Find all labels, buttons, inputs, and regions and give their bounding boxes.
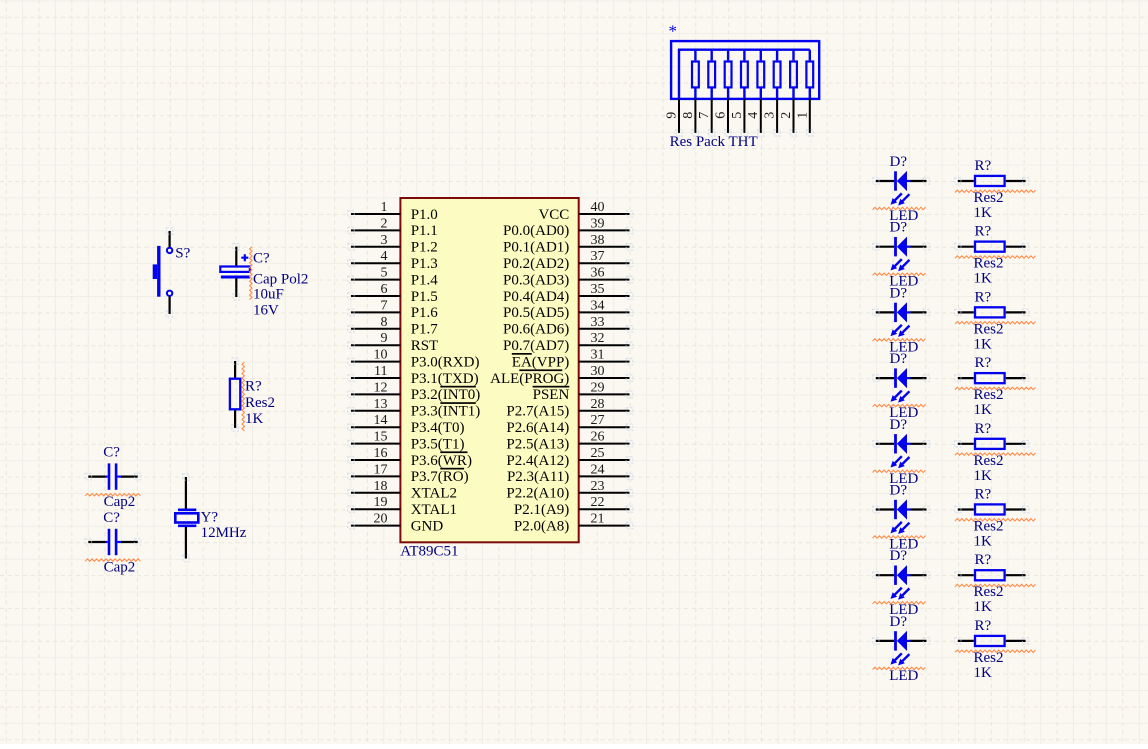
svg-text:39: 39 bbox=[591, 216, 605, 231]
resistor pack pin 4 bbox=[760, 99, 762, 133]
svg-text:7: 7 bbox=[697, 112, 712, 119]
resistor pack RP? outer box bbox=[671, 41, 819, 99]
IC pin 6 wire bbox=[351, 295, 400, 297]
IC pin 5 wire bbox=[351, 279, 400, 281]
LED D? #5 bbox=[876, 434, 927, 469]
svg-text:7: 7 bbox=[381, 298, 388, 313]
IC pin 36 wire bbox=[579, 279, 630, 281]
svg-text:P2.4(A12): P2.4(A12) bbox=[506, 453, 569, 469]
svg-text:P1.1: P1.1 bbox=[411, 223, 438, 239]
svg-text:5: 5 bbox=[730, 112, 745, 119]
svg-text:P3.7(RO): P3.7(RO) bbox=[411, 469, 469, 485]
svg-text:D?: D? bbox=[890, 154, 908, 170]
IC pin 2 wire bbox=[351, 229, 400, 231]
IC pin 18 wire bbox=[351, 492, 400, 494]
resistor pack pin 9 bbox=[678, 99, 680, 133]
svg-text:GND: GND bbox=[411, 518, 444, 534]
svg-text:14: 14 bbox=[374, 413, 388, 428]
svg-text:D?: D? bbox=[890, 417, 908, 433]
svg-text:P1.2: P1.2 bbox=[411, 240, 438, 256]
svg-text:Res2: Res2 bbox=[974, 584, 1004, 600]
resistor pack element 3 bbox=[727, 50, 729, 61]
svg-text:6: 6 bbox=[714, 112, 729, 119]
svg-text:27: 27 bbox=[591, 413, 605, 428]
svg-text:10: 10 bbox=[374, 348, 388, 363]
svg-text:25: 25 bbox=[591, 446, 605, 461]
crystal Y? 12MHz bbox=[185, 477, 187, 509]
overline PSEN bbox=[533, 386, 570, 388]
LED D? #2 bbox=[876, 237, 927, 272]
svg-text:P1.4: P1.4 bbox=[411, 272, 439, 288]
svg-text:Res2: Res2 bbox=[245, 395, 275, 411]
svg-text:12: 12 bbox=[374, 380, 388, 395]
IC pin 19 wire bbox=[351, 508, 400, 510]
svg-text:33: 33 bbox=[591, 315, 605, 330]
resistor R? Res2 1K (vertical) bbox=[234, 361, 236, 378]
resistor R? #2 (Res2 1K) bbox=[958, 246, 974, 248]
IC pin 24 wire bbox=[579, 475, 630, 477]
svg-text:P1.0: P1.0 bbox=[411, 207, 438, 223]
svg-text:P1.6: P1.6 bbox=[411, 305, 439, 321]
svg-text:19: 19 bbox=[374, 495, 388, 510]
svg-text:P2.5(A13): P2.5(A13) bbox=[506, 436, 569, 452]
IC pin 3 wire bbox=[351, 246, 400, 248]
IC pin 28 wire bbox=[579, 410, 630, 412]
svg-text:21: 21 bbox=[591, 512, 605, 527]
svg-text:20: 20 bbox=[374, 512, 388, 527]
svg-text:8: 8 bbox=[381, 315, 388, 330]
svg-text:P2.7(A15): P2.7(A15) bbox=[506, 404, 569, 420]
svg-text:26: 26 bbox=[591, 430, 605, 445]
svg-text:1K: 1K bbox=[974, 468, 993, 484]
svg-text:5: 5 bbox=[381, 266, 388, 281]
svg-text:P1.7: P1.7 bbox=[411, 322, 439, 338]
svg-text:22: 22 bbox=[591, 495, 605, 510]
svg-text:R?: R? bbox=[245, 378, 262, 394]
svg-text:Res2: Res2 bbox=[974, 321, 1004, 337]
resistor pack element 5 bbox=[760, 50, 762, 61]
IC pin 16 wire bbox=[351, 459, 400, 461]
svg-text:Res2: Res2 bbox=[974, 256, 1004, 272]
svg-text:C?: C? bbox=[253, 250, 270, 266]
svg-text:D?: D? bbox=[890, 548, 908, 564]
resistor R? #3 (Res2 1K) bbox=[958, 311, 974, 313]
svg-text:4: 4 bbox=[381, 249, 388, 264]
svg-text:P0.2(AD2): P0.2(AD2) bbox=[503, 256, 569, 272]
IC pin 25 wire bbox=[579, 459, 630, 461]
resistor pack pin 1 bbox=[809, 99, 811, 133]
svg-text:S?: S? bbox=[175, 245, 190, 261]
svg-text:ALE(PROG): ALE(PROG) bbox=[490, 371, 569, 387]
svg-text:12MHz: 12MHz bbox=[201, 525, 247, 541]
svg-text:P2.6(A14): P2.6(A14) bbox=[506, 420, 569, 436]
svg-text:P3.0(RXD): P3.0(RXD) bbox=[411, 354, 480, 370]
svg-text:29: 29 bbox=[591, 380, 605, 395]
svg-text:P0.7(AD7): P0.7(AD7) bbox=[503, 338, 569, 354]
svg-text:P2.1(A9): P2.1(A9) bbox=[514, 502, 569, 518]
IC pin 15 wire bbox=[351, 443, 400, 445]
resistor R? #5 (Res2 1K) bbox=[958, 443, 974, 445]
svg-text:32: 32 bbox=[591, 331, 605, 346]
svg-text:Res2: Res2 bbox=[974, 519, 1004, 535]
svg-text:Cap2: Cap2 bbox=[104, 494, 136, 510]
svg-text:3: 3 bbox=[763, 112, 778, 119]
IC pin 31 wire bbox=[579, 361, 630, 363]
overline WR bbox=[440, 451, 467, 453]
IC pin 1 wire bbox=[351, 213, 400, 215]
IC pin 20 wire bbox=[351, 525, 400, 527]
IC pin 21 wire bbox=[579, 525, 630, 527]
svg-text:Res2: Res2 bbox=[974, 190, 1004, 206]
LED D? #8 bbox=[876, 631, 927, 666]
svg-text:P2.0(A8): P2.0(A8) bbox=[514, 518, 569, 534]
svg-text:40: 40 bbox=[591, 200, 605, 215]
svg-text:1K: 1K bbox=[974, 336, 993, 352]
resistor R? #4 (Res2 1K) bbox=[958, 377, 974, 379]
svg-text:1K: 1K bbox=[974, 205, 993, 221]
svg-text:6: 6 bbox=[381, 282, 388, 297]
svg-text:P2.3(A11): P2.3(A11) bbox=[507, 469, 569, 485]
svg-text:P3.5(T1): P3.5(T1) bbox=[411, 436, 465, 452]
svg-text:23: 23 bbox=[591, 479, 605, 494]
svg-text:16V: 16V bbox=[253, 302, 279, 318]
svg-text:R?: R? bbox=[975, 289, 992, 305]
svg-text:16: 16 bbox=[374, 446, 388, 461]
svg-text:P3.2(INT0): P3.2(INT0) bbox=[411, 387, 481, 403]
svg-text:RST: RST bbox=[411, 338, 439, 354]
svg-text:D?: D? bbox=[890, 483, 908, 499]
IC pin 9 wire bbox=[351, 344, 400, 346]
svg-text:34: 34 bbox=[591, 298, 605, 313]
svg-text:Res Pack THT: Res Pack THT bbox=[670, 134, 758, 150]
svg-text:*: * bbox=[669, 22, 678, 41]
svg-text:11: 11 bbox=[374, 364, 387, 379]
svg-text:EA(VPP): EA(VPP) bbox=[512, 354, 570, 370]
LED D? #7 bbox=[876, 565, 927, 600]
svg-text:28: 28 bbox=[591, 397, 605, 412]
IC pin 26 wire bbox=[579, 443, 630, 445]
svg-text:P0.1(AD1): P0.1(AD1) bbox=[503, 240, 569, 256]
svg-text:2: 2 bbox=[381, 216, 388, 231]
svg-text:4: 4 bbox=[746, 112, 761, 119]
IC pin 17 wire bbox=[351, 475, 400, 477]
IC pin 7 wire bbox=[351, 311, 400, 313]
IC pin 34 wire bbox=[579, 311, 630, 313]
resistor pack pin 6 bbox=[727, 99, 729, 133]
resistor pack element 8 bbox=[809, 50, 811, 61]
svg-text:D?: D? bbox=[890, 351, 908, 367]
IC pin 8 wire bbox=[351, 328, 400, 330]
svg-text:P1.5: P1.5 bbox=[411, 289, 438, 305]
svg-text:1K: 1K bbox=[974, 665, 993, 681]
LED D? #4 bbox=[876, 368, 927, 403]
IC pin 29 wire bbox=[579, 393, 630, 395]
svg-text:3: 3 bbox=[381, 233, 388, 248]
IC pin 23 wire bbox=[579, 492, 630, 494]
IC pin 33 wire bbox=[579, 328, 630, 330]
IC pin 4 wire bbox=[351, 262, 400, 264]
svg-text:PSEN: PSEN bbox=[533, 387, 570, 403]
svg-text:XTAL2: XTAL2 bbox=[411, 486, 457, 502]
svg-text:R?: R? bbox=[975, 158, 992, 174]
svg-text:1K: 1K bbox=[974, 402, 993, 418]
overline EA bbox=[512, 353, 532, 355]
svg-text:8: 8 bbox=[681, 112, 696, 119]
resistor pack element 2 bbox=[711, 50, 713, 61]
svg-text:1K: 1K bbox=[974, 271, 993, 287]
svg-text:VCC: VCC bbox=[538, 207, 569, 223]
IC pin 30 wire bbox=[579, 377, 630, 379]
svg-text:18: 18 bbox=[374, 479, 388, 494]
svg-text:P3.6(WR): P3.6(WR) bbox=[411, 453, 472, 469]
svg-text:P0.4(AD4): P0.4(AD4) bbox=[503, 289, 569, 305]
LED D? #1 bbox=[876, 171, 927, 206]
svg-text:LED: LED bbox=[889, 668, 918, 684]
svg-text:P1.3: P1.3 bbox=[411, 256, 438, 272]
overline INT1 bbox=[440, 402, 476, 404]
svg-text:P0.3(AD3): P0.3(AD3) bbox=[503, 272, 569, 288]
overline RD bbox=[440, 468, 464, 470]
svg-text:1K: 1K bbox=[974, 534, 993, 550]
IC pin 40 wire bbox=[579, 213, 630, 215]
capacitor C? Cap2 #1 bbox=[88, 476, 105, 478]
svg-text:C?: C? bbox=[103, 445, 120, 461]
resistor R? #1 (Res2 1K) bbox=[958, 180, 974, 182]
resistor R? #8 (Res2 1K) bbox=[958, 640, 974, 642]
IC pin 27 wire bbox=[579, 426, 630, 428]
resistor pack pin 7 bbox=[711, 99, 713, 133]
resistor pack pin 3 bbox=[776, 99, 778, 133]
svg-text:R?: R? bbox=[975, 421, 992, 437]
IC pin 35 wire bbox=[579, 295, 630, 297]
svg-text:R?: R? bbox=[975, 224, 992, 240]
svg-text:30: 30 bbox=[591, 364, 605, 379]
svg-text:P3.1(TXD): P3.1(TXD) bbox=[411, 371, 479, 387]
resistor R? #6 (Res2 1K) bbox=[958, 508, 974, 510]
svg-text:1K: 1K bbox=[974, 599, 993, 615]
resistor pack element 7 bbox=[792, 50, 794, 61]
svg-text:Y?: Y? bbox=[201, 510, 219, 526]
svg-text:D?: D? bbox=[890, 285, 908, 301]
resistor pack element 1 bbox=[694, 50, 696, 61]
svg-text:10uF: 10uF bbox=[253, 287, 284, 303]
IC pin 10 wire bbox=[351, 361, 400, 363]
svg-text:15: 15 bbox=[374, 430, 388, 445]
svg-text:1: 1 bbox=[381, 200, 388, 215]
svg-text:R?: R? bbox=[975, 552, 992, 568]
svg-text:2: 2 bbox=[779, 112, 794, 119]
IC pin 11 wire bbox=[351, 377, 400, 379]
LED D? #6 bbox=[876, 499, 927, 534]
svg-text:24: 24 bbox=[591, 462, 605, 477]
IC pin 14 wire bbox=[351, 426, 400, 428]
svg-text:38: 38 bbox=[591, 233, 605, 248]
svg-text:P0.0(AD0): P0.0(AD0) bbox=[503, 223, 569, 239]
svg-text:P0.5(AD5): P0.5(AD5) bbox=[503, 305, 569, 321]
svg-text:R?: R? bbox=[975, 487, 992, 503]
IC pin 37 wire bbox=[579, 262, 630, 264]
svg-text:C?: C? bbox=[103, 510, 120, 526]
svg-text:37: 37 bbox=[591, 249, 605, 264]
svg-text:31: 31 bbox=[591, 348, 605, 363]
svg-text:1K: 1K bbox=[245, 411, 264, 427]
resistor pack element 6 bbox=[776, 50, 778, 61]
IC pin 32 wire bbox=[579, 344, 630, 346]
svg-text:9: 9 bbox=[665, 112, 680, 119]
switch S? bbox=[169, 231, 171, 247]
svg-text:17: 17 bbox=[374, 462, 388, 477]
svg-text:9: 9 bbox=[381, 331, 388, 346]
svg-text:P0.6(AD6): P0.6(AD6) bbox=[503, 322, 569, 338]
svg-text:P2.2(A10): P2.2(A10) bbox=[506, 486, 569, 502]
IC pin 38 wire bbox=[579, 246, 630, 248]
svg-text:R?: R? bbox=[975, 618, 992, 634]
resistor pack element 4 bbox=[743, 50, 745, 61]
IC pin 39 wire bbox=[579, 229, 630, 231]
resistor pack pin 8 bbox=[694, 99, 696, 133]
svg-text:AT89C51: AT89C51 bbox=[400, 543, 458, 559]
svg-text:P3.4(T0): P3.4(T0) bbox=[411, 420, 465, 436]
op IC body U? AT89C51 bbox=[400, 198, 578, 542]
svg-text:35: 35 bbox=[591, 282, 605, 297]
resistor pack pin 2 bbox=[793, 99, 795, 133]
svg-text:Res2: Res2 bbox=[974, 650, 1004, 666]
svg-text:P3.3(INT1): P3.3(INT1) bbox=[411, 404, 481, 420]
LED D? #3 bbox=[876, 302, 927, 337]
capacitor C? Cap2 #2 bbox=[88, 541, 105, 543]
overline INT0 bbox=[440, 386, 476, 388]
overline PROG bbox=[519, 369, 562, 371]
IC pin 22 wire bbox=[579, 508, 630, 510]
IC pin 13 wire bbox=[351, 410, 400, 412]
svg-text:Res2: Res2 bbox=[974, 453, 1004, 469]
resistor pack pin 5 bbox=[743, 99, 745, 133]
svg-text:Cap2: Cap2 bbox=[104, 559, 136, 575]
svg-text:D?: D? bbox=[890, 614, 908, 630]
IC pin 12 wire bbox=[351, 393, 400, 395]
resistor R? #7 (Res2 1K) bbox=[958, 574, 974, 576]
resistor pack common bus wire bbox=[679, 50, 810, 99]
svg-text:36: 36 bbox=[591, 266, 605, 281]
svg-text:D?: D? bbox=[890, 220, 908, 236]
capacitor C? Cap Pol2 10uF 16V bbox=[235, 247, 237, 267]
svg-text:13: 13 bbox=[374, 397, 388, 412]
svg-text:1: 1 bbox=[795, 112, 810, 119]
svg-text:Cap Pol2: Cap Pol2 bbox=[253, 271, 308, 287]
svg-text:Res2: Res2 bbox=[974, 387, 1004, 403]
svg-text:XTAL1: XTAL1 bbox=[411, 502, 457, 518]
svg-text:R?: R? bbox=[975, 355, 992, 371]
